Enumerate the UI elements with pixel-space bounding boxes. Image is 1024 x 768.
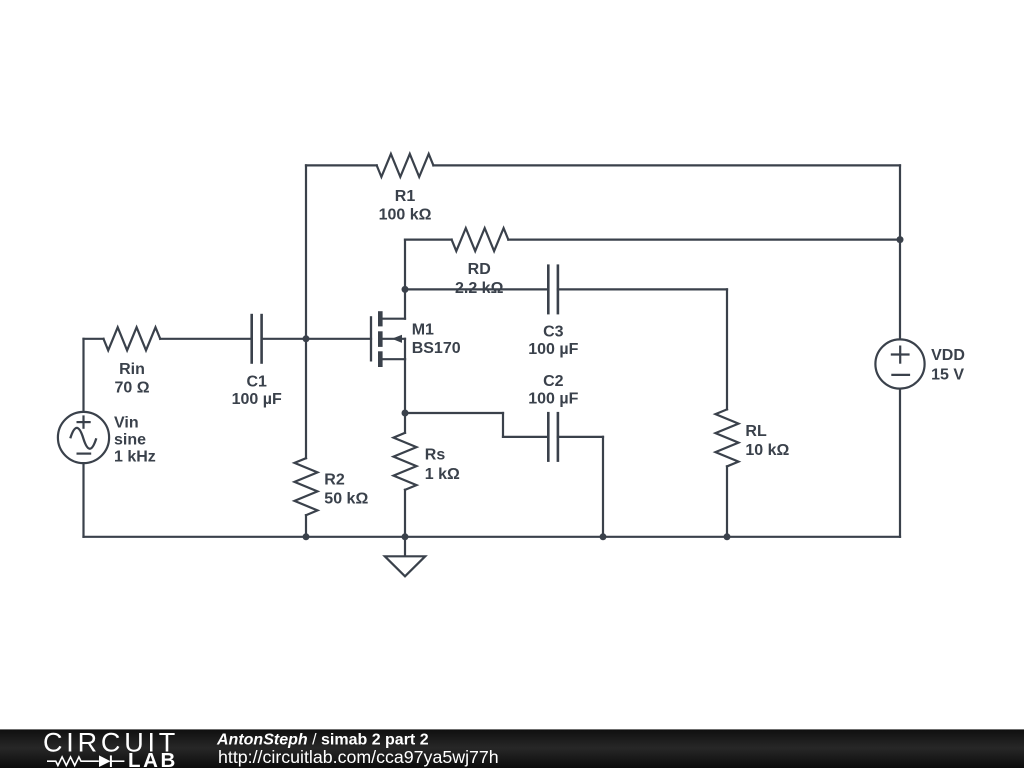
svg-text:70 Ω: 70 Ω <box>114 379 149 396</box>
svg-text:sine: sine <box>114 432 146 449</box>
svg-text:Vin: Vin <box>114 414 139 431</box>
svg-text:50 kΩ: 50 kΩ <box>324 491 368 508</box>
svg-text:VDD: VDD <box>931 347 965 364</box>
svg-text:100 µF: 100 µF <box>528 341 578 358</box>
svg-text:10 kΩ: 10 kΩ <box>745 442 789 459</box>
svg-text:1 kHz: 1 kHz <box>114 449 156 466</box>
svg-text:http://circuitlab.com/cca97ya5: http://circuitlab.com/cca97ya5wj77h <box>218 747 499 767</box>
svg-text:RD: RD <box>468 261 491 278</box>
svg-text:C3: C3 <box>543 323 564 340</box>
svg-text:Rs: Rs <box>425 447 446 464</box>
svg-text:1 kΩ: 1 kΩ <box>425 466 460 483</box>
svg-text:M1: M1 <box>412 321 434 338</box>
svg-text:AntonSteph / simab 2 part 2: AntonSteph / simab 2 part 2 <box>216 732 429 749</box>
svg-text:C2: C2 <box>543 373 564 390</box>
svg-text:2.2 kΩ: 2.2 kΩ <box>455 280 504 297</box>
svg-text:15 V: 15 V <box>931 367 964 384</box>
svg-text:R2: R2 <box>324 471 345 488</box>
svg-text:100 µF: 100 µF <box>528 391 578 408</box>
svg-text:R1: R1 <box>395 188 416 205</box>
svg-text:C1: C1 <box>246 373 267 390</box>
svg-text:100 kΩ: 100 kΩ <box>379 206 432 223</box>
svg-text:BS170: BS170 <box>412 340 461 357</box>
svg-text:100 µF: 100 µF <box>232 391 282 408</box>
svg-text:LAB: LAB <box>128 749 178 768</box>
svg-text:RL: RL <box>745 423 767 440</box>
svg-text:Rin: Rin <box>119 361 145 378</box>
